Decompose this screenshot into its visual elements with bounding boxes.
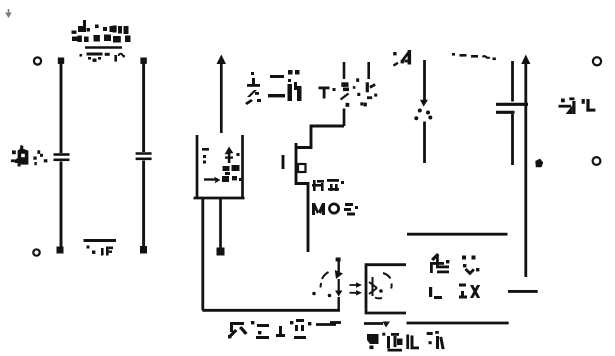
label 功率 bbox=[312, 179, 344, 191]
label between caps 300uF bbox=[84, 239, 117, 242]
diode VD (vertical, arrow down) bbox=[414, 60, 432, 163]
label 300V (top, line 2) bbox=[80, 53, 125, 62]
light arrows bbox=[350, 282, 363, 295]
label underline bbox=[85, 46, 122, 49]
optocoupler LED bbox=[335, 258, 343, 311]
label MOS bbox=[312, 203, 358, 216]
label in regulator box line1 bbox=[430, 253, 479, 275]
transformer secondary winding bbox=[364, 62, 378, 106]
phototransistor bracket bbox=[366, 265, 406, 313]
phototransistor circle (broken arcs) and marks bbox=[369, 273, 392, 298]
label 反馈电路 (bottom left) bbox=[228, 319, 311, 339]
box pin 2 stub with dot bbox=[217, 198, 225, 256]
capacitor C1 bbox=[54, 58, 70, 254]
right rail with top arrow bbox=[521, 55, 543, 278]
input terminal top bbox=[34, 57, 41, 64]
LED circle (broken arcs) bbox=[312, 272, 331, 297]
label in regulator box line2 bbox=[429, 284, 480, 300]
transformer primary winding bbox=[341, 62, 350, 107]
box pin 1 wire (left, down to bottom rail) bbox=[203, 198, 340, 310]
PWM controller box bbox=[194, 135, 245, 198]
output terminal bottom bbox=[593, 157, 601, 165]
input terminal bottom bbox=[33, 249, 39, 255]
label 24 bbox=[393, 50, 411, 67]
label rectifier-filter (top, line 1) bbox=[72, 20, 131, 43]
bottom rail left segments bbox=[330, 322, 390, 328]
label 输入 (input) bbox=[11, 145, 48, 167]
box interior right arrow bbox=[204, 177, 221, 184]
capacitor C2 bbox=[136, 58, 152, 254]
label 基准电压 (bottom right) bbox=[367, 331, 445, 352]
MOSFET Q1 bbox=[283, 126, 344, 252]
transformer label T bbox=[319, 87, 336, 99]
output terminal top bbox=[593, 57, 601, 65]
dash after label bbox=[316, 323, 336, 326]
label optocoupler (3 chars) bbox=[245, 70, 302, 105]
wire transformer primary to MOSFET drain bbox=[343, 109, 346, 127]
regulator control box bottom line bbox=[407, 322, 509, 325]
output capacitor C3 bbox=[496, 61, 528, 165]
wire into box top with up arrow bbox=[217, 55, 227, 134]
transformer core bbox=[353, 78, 364, 105]
label 输出 (output) bbox=[559, 97, 596, 114]
box interior marks bbox=[202, 147, 242, 183]
dashed marks top right bbox=[452, 53, 496, 60]
gray cursor arrow bbox=[5, 9, 12, 18]
rail stub below bbox=[508, 290, 538, 293]
regulator control box top line bbox=[407, 233, 508, 236]
